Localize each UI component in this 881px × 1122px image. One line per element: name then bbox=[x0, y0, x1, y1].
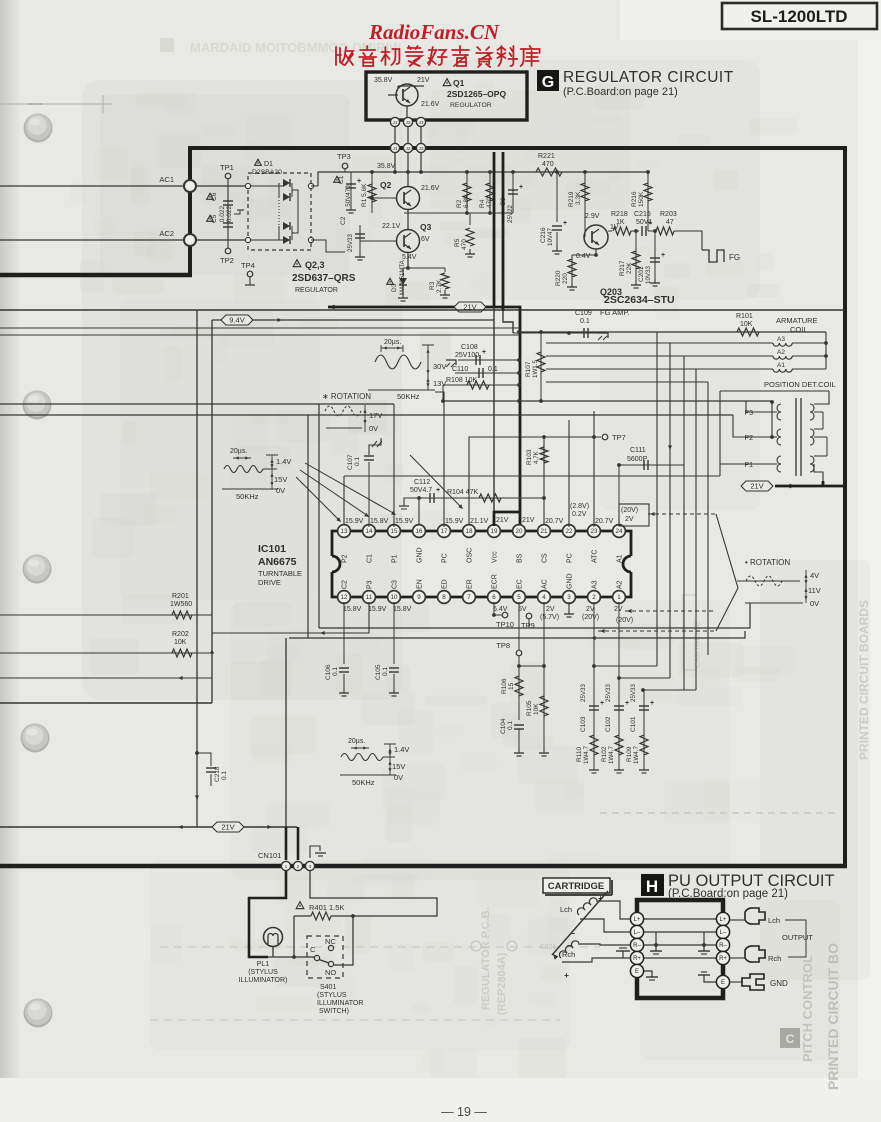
svg-text:12: 12 bbox=[341, 594, 348, 601]
svg-text:D2SBA20: D2SBA20 bbox=[252, 169, 282, 176]
svg-text:EC: EC bbox=[517, 579, 524, 589]
svg-text:6: 6 bbox=[492, 594, 496, 601]
svg-text:C103: C103 bbox=[580, 716, 587, 732]
svg-text:C: C bbox=[786, 1032, 795, 1046]
svg-text:R401 1.5K: R401 1.5K bbox=[309, 903, 344, 912]
svg-text:— 19 —: — 19 — bbox=[441, 1105, 487, 1119]
svg-text:25V100: 25V100 bbox=[455, 352, 479, 359]
svg-text:15: 15 bbox=[508, 682, 515, 690]
svg-text:0.1: 0.1 bbox=[354, 457, 361, 466]
svg-text:ARMATURE: ARMATURE bbox=[776, 316, 818, 325]
svg-text:2V: 2V bbox=[546, 606, 555, 613]
svg-text:PRINTED CIRCUIT BOARDS: PRINTED CIRCUIT BOARDS bbox=[857, 600, 871, 760]
svg-text:TP3: TP3 bbox=[337, 152, 351, 161]
svg-text:ER: ER bbox=[467, 579, 474, 589]
svg-text:15.9V: 15.9V bbox=[445, 518, 464, 525]
svg-text:C107: C107 bbox=[347, 454, 354, 470]
svg-text:OSC: OSC bbox=[467, 548, 474, 563]
svg-text:30V: 30V bbox=[433, 362, 446, 371]
svg-text:C104: C104 bbox=[500, 718, 507, 734]
svg-text:C111: C111 bbox=[630, 447, 646, 454]
svg-text:2SD1265–OPQ: 2SD1265–OPQ bbox=[447, 89, 506, 99]
svg-text:NC: NC bbox=[325, 937, 336, 946]
svg-text:C2: C2 bbox=[340, 216, 347, 225]
svg-text:(STYLUS: (STYLUS bbox=[317, 992, 347, 999]
svg-text:R1 5.6K: R1 5.6K bbox=[361, 183, 368, 207]
svg-text:J3: J3 bbox=[418, 120, 423, 126]
svg-text:GND: GND bbox=[770, 979, 788, 988]
svg-text:C5: C5 bbox=[211, 214, 218, 223]
svg-text:BS: BS bbox=[517, 553, 524, 563]
svg-text:E: E bbox=[635, 969, 639, 975]
svg-text:POSITION DET.COIL: POSITION DET.COIL bbox=[764, 380, 836, 389]
svg-text:20: 20 bbox=[516, 528, 523, 535]
svg-text:R106: R106 bbox=[501, 678, 508, 694]
svg-text:ILLUMINATOR: ILLUMINATOR bbox=[317, 1000, 363, 1007]
svg-text:EN: EN bbox=[417, 579, 424, 589]
svg-text:C108: C108 bbox=[461, 344, 478, 351]
svg-text:2SC2634–STU: 2SC2634–STU bbox=[604, 294, 675, 306]
svg-text:(REP2804A): (REP2804A) bbox=[496, 952, 508, 1015]
svg-text:R217: R217 bbox=[619, 260, 626, 276]
svg-text:14: 14 bbox=[366, 528, 373, 535]
svg-text:3.3K: 3.3K bbox=[575, 191, 582, 205]
svg-text:C106: C106 bbox=[325, 664, 332, 680]
svg-text:0V: 0V bbox=[394, 773, 403, 782]
svg-text:21.6V: 21.6V bbox=[421, 185, 440, 192]
svg-text:R218: R218 bbox=[611, 211, 628, 218]
svg-text:E301: E301 bbox=[540, 944, 556, 951]
svg-text:15.9V: 15.9V bbox=[368, 606, 387, 613]
svg-text:22K: 22K bbox=[626, 262, 633, 274]
svg-text:GND: GND bbox=[417, 547, 424, 563]
svg-text:D3: D3 bbox=[391, 283, 398, 292]
svg-text:25V33: 25V33 bbox=[605, 684, 612, 702]
svg-text:0.022: 0.022 bbox=[219, 205, 226, 222]
svg-text:COIL: COIL bbox=[790, 325, 808, 334]
svg-text:5.4V: 5.4V bbox=[402, 254, 417, 261]
svg-text:TP2: TP2 bbox=[220, 256, 234, 265]
svg-text:18: 18 bbox=[466, 528, 473, 535]
svg-text:21V: 21V bbox=[417, 77, 430, 84]
svg-text:35.8V: 35.8V bbox=[374, 77, 393, 84]
svg-text:15V: 15V bbox=[392, 762, 405, 771]
svg-text:2SD637–QRS: 2SD637–QRS bbox=[292, 273, 356, 284]
svg-text:Q3: Q3 bbox=[420, 222, 432, 232]
svg-text:TP4: TP4 bbox=[241, 261, 255, 270]
svg-text:CS: CS bbox=[542, 553, 549, 563]
svg-text:PC: PC bbox=[567, 553, 574, 563]
svg-text:+: + bbox=[564, 970, 569, 980]
svg-text:20.7V: 20.7V bbox=[595, 518, 614, 525]
svg-text:2: 2 bbox=[592, 594, 596, 601]
svg-text:0V: 0V bbox=[369, 424, 378, 433]
svg-text:1.4V: 1.4V bbox=[276, 457, 291, 466]
svg-text:C102: C102 bbox=[605, 716, 612, 732]
svg-text:R–: R– bbox=[719, 943, 727, 949]
svg-text:L–: L– bbox=[720, 930, 727, 936]
svg-text:24: 24 bbox=[616, 528, 623, 535]
svg-text:8: 8 bbox=[442, 594, 446, 601]
svg-text:D1: D1 bbox=[264, 161, 273, 168]
svg-text:TURNTABLE: TURNTABLE bbox=[258, 569, 302, 578]
svg-text:2V: 2V bbox=[625, 516, 634, 523]
svg-text:R107: R107 bbox=[525, 361, 532, 377]
svg-text:PITCH CONTROL: PITCH CONTROL bbox=[800, 955, 815, 1062]
svg-text:AC1: AC1 bbox=[159, 175, 174, 184]
svg-text:11: 11 bbox=[366, 594, 373, 601]
svg-text:50V470: 50V470 bbox=[345, 185, 352, 207]
svg-text:A3: A3 bbox=[592, 580, 599, 589]
svg-text:13: 13 bbox=[341, 528, 348, 535]
svg-text:(20V): (20V) bbox=[621, 507, 638, 514]
svg-text:ED: ED bbox=[442, 579, 449, 589]
svg-text:5: 5 bbox=[517, 594, 521, 601]
svg-text:25V33: 25V33 bbox=[347, 234, 354, 252]
svg-text:R202: R202 bbox=[172, 631, 189, 638]
svg-text:ILLUMINATOR): ILLUMINATOR) bbox=[239, 977, 288, 984]
svg-text:R–: R– bbox=[633, 943, 641, 949]
svg-text:J2: J2 bbox=[405, 146, 410, 152]
svg-text:TP9: TP9 bbox=[521, 621, 535, 630]
svg-text:DRIVE: DRIVE bbox=[258, 578, 281, 587]
svg-text:+: + bbox=[436, 487, 440, 494]
svg-text:50KHz: 50KHz bbox=[236, 492, 259, 501]
svg-text:(2.8V): (2.8V) bbox=[570, 503, 589, 510]
svg-text:21: 21 bbox=[541, 528, 548, 535]
svg-text:21.1V: 21.1V bbox=[470, 518, 489, 525]
svg-text:P1: P1 bbox=[392, 554, 399, 563]
svg-text:20µs.: 20µs. bbox=[230, 448, 247, 455]
svg-text:TP7: TP7 bbox=[612, 433, 626, 442]
svg-text:21V: 21V bbox=[522, 517, 535, 524]
svg-text:1: 1 bbox=[617, 594, 621, 601]
svg-text:50V1: 50V1 bbox=[636, 219, 652, 226]
svg-text:(20V): (20V) bbox=[582, 614, 599, 621]
svg-text:R5: R5 bbox=[454, 238, 461, 247]
svg-text:R4: R4 bbox=[479, 199, 486, 208]
svg-text:R3: R3 bbox=[429, 281, 436, 290]
svg-text:C1: C1 bbox=[367, 554, 374, 563]
svg-text:1W4.7: 1W4.7 bbox=[633, 746, 640, 764]
svg-text:–: – bbox=[570, 928, 575, 938]
svg-text:Lch: Lch bbox=[560, 905, 572, 914]
svg-text:6V: 6V bbox=[421, 236, 430, 243]
svg-text:A2: A2 bbox=[777, 349, 785, 356]
svg-text:A3: A3 bbox=[777, 336, 785, 343]
svg-text:C2: C2 bbox=[342, 580, 349, 589]
svg-text:Vcc: Vcc bbox=[492, 551, 499, 563]
svg-text:0.2V: 0.2V bbox=[572, 511, 587, 518]
svg-text:AC: AC bbox=[542, 579, 549, 589]
svg-text:R221: R221 bbox=[538, 153, 555, 160]
svg-text:150K: 150K bbox=[638, 191, 645, 207]
svg-text:15.8V: 15.8V bbox=[370, 518, 389, 525]
svg-text:0.1: 0.1 bbox=[332, 667, 339, 676]
svg-text:0.4V: 0.4V bbox=[576, 253, 591, 260]
svg-text:P2: P2 bbox=[744, 435, 753, 442]
svg-text:15: 15 bbox=[391, 528, 398, 535]
svg-text:0V: 0V bbox=[276, 486, 285, 495]
svg-text:Rch: Rch bbox=[768, 954, 781, 963]
svg-text:REGULATOR: REGULATOR bbox=[295, 287, 338, 294]
svg-text:0.1: 0.1 bbox=[507, 721, 514, 730]
svg-text:R101: R101 bbox=[736, 313, 753, 320]
svg-text:J2: J2 bbox=[405, 120, 410, 126]
svg-text:47: 47 bbox=[666, 219, 674, 226]
svg-text:FG: FG bbox=[729, 253, 740, 262]
svg-text:1W1.5: 1W1.5 bbox=[532, 360, 539, 378]
svg-text:SWITCH): SWITCH) bbox=[319, 1008, 349, 1015]
svg-text:P3: P3 bbox=[367, 580, 374, 589]
svg-text:+: + bbox=[661, 252, 665, 259]
svg-text:13V: 13V bbox=[433, 379, 446, 388]
svg-text:1W560: 1W560 bbox=[170, 601, 192, 608]
svg-text:C215: C215 bbox=[634, 211, 651, 218]
svg-text:R102: R102 bbox=[601, 746, 608, 762]
svg-text:50KHz: 50KHz bbox=[352, 778, 375, 787]
svg-text:2.9V: 2.9V bbox=[585, 213, 600, 220]
svg-text:Lch: Lch bbox=[768, 916, 780, 925]
svg-text:4.7K: 4.7K bbox=[533, 450, 540, 464]
svg-text:REGULATOR CIRCUIT: REGULATOR CIRCUIT bbox=[563, 69, 734, 86]
svg-text:C101: C101 bbox=[630, 716, 637, 732]
svg-text:6.8K: 6.8K bbox=[463, 194, 470, 208]
svg-text:0.1: 0.1 bbox=[488, 366, 498, 373]
svg-text:470: 470 bbox=[542, 161, 554, 168]
svg-text:C109: C109 bbox=[575, 310, 592, 317]
svg-text:MA4051MTA: MA4051MTA bbox=[400, 260, 406, 295]
svg-text:R105: R105 bbox=[526, 700, 533, 716]
svg-text:5600P: 5600P bbox=[627, 456, 648, 463]
svg-text:22: 22 bbox=[566, 528, 573, 535]
svg-text:10K: 10K bbox=[740, 321, 753, 328]
svg-text:PL1: PL1 bbox=[257, 961, 270, 968]
svg-text:R216: R216 bbox=[631, 191, 638, 207]
svg-text:3: 3 bbox=[567, 594, 571, 601]
svg-text:+: + bbox=[482, 349, 486, 356]
svg-text:10K: 10K bbox=[533, 703, 540, 715]
svg-text:0.022: 0.022 bbox=[226, 205, 233, 222]
svg-text:A1: A1 bbox=[617, 554, 624, 563]
svg-text:10: 10 bbox=[391, 594, 398, 601]
svg-text:PC: PC bbox=[442, 553, 449, 563]
svg-text:470: 470 bbox=[461, 239, 468, 250]
svg-text:50V4.7: 50V4.7 bbox=[410, 487, 432, 494]
svg-text:R103: R103 bbox=[526, 449, 533, 465]
svg-text:+: + bbox=[625, 700, 629, 707]
svg-text:C3: C3 bbox=[392, 580, 399, 589]
svg-text:R+: R+ bbox=[719, 956, 727, 962]
svg-text:0.1: 0.1 bbox=[382, 667, 389, 676]
svg-text:A1: A1 bbox=[777, 362, 785, 369]
svg-text:3: 3 bbox=[309, 864, 312, 870]
svg-text:(P.C.Board:on page 21): (P.C.Board:on page 21) bbox=[563, 86, 678, 98]
svg-text:10V47: 10V47 bbox=[547, 228, 554, 246]
svg-text:25V33: 25V33 bbox=[580, 684, 587, 702]
svg-text:Q1: Q1 bbox=[453, 78, 465, 88]
svg-text:AN6675: AN6675 bbox=[258, 556, 297, 568]
svg-text:R110: R110 bbox=[576, 747, 583, 762]
svg-text:G: G bbox=[542, 74, 554, 91]
svg-text:R220: R220 bbox=[555, 270, 562, 286]
svg-text:22.1V: 22.1V bbox=[382, 223, 401, 230]
svg-text:17: 17 bbox=[441, 528, 448, 535]
svg-text:TP8: TP8 bbox=[496, 641, 510, 650]
svg-text:C218: C218 bbox=[214, 766, 221, 782]
svg-text:15V: 15V bbox=[274, 475, 287, 484]
svg-text:1K: 1K bbox=[616, 219, 625, 226]
svg-text:4: 4 bbox=[542, 594, 546, 601]
svg-text:50KHz: 50KHz bbox=[397, 392, 420, 401]
svg-text:R2: R2 bbox=[456, 199, 463, 208]
svg-text:SL-1200LTD: SL-1200LTD bbox=[751, 7, 848, 26]
svg-text:(STYLUS: (STYLUS bbox=[248, 969, 278, 976]
svg-text:IC101: IC101 bbox=[258, 543, 286, 555]
svg-text:C105: C105 bbox=[375, 664, 382, 680]
svg-text:J3: J3 bbox=[418, 146, 423, 152]
svg-text:21V: 21V bbox=[496, 517, 509, 524]
svg-text:20µs.: 20µs. bbox=[348, 738, 365, 745]
svg-text:J1: J1 bbox=[392, 146, 397, 152]
svg-text:11V: 11V bbox=[808, 586, 821, 595]
svg-text:0.1: 0.1 bbox=[221, 771, 228, 780]
svg-text:1.4V: 1.4V bbox=[394, 745, 409, 754]
svg-text:9: 9 bbox=[417, 594, 421, 601]
svg-text:S401: S401 bbox=[320, 984, 336, 991]
svg-text:0.1: 0.1 bbox=[580, 318, 590, 325]
svg-text:10V33: 10V33 bbox=[645, 266, 652, 284]
svg-text:P2: P2 bbox=[342, 554, 349, 563]
svg-text:PRINTED CIRCUIT BO: PRINTED CIRCUIT BO bbox=[825, 943, 841, 1090]
svg-text:GND: GND bbox=[567, 573, 574, 589]
svg-text:1W4.7: 1W4.7 bbox=[608, 746, 615, 764]
svg-text:220: 220 bbox=[562, 273, 569, 284]
svg-text:R201: R201 bbox=[172, 593, 189, 600]
svg-text:R203: R203 bbox=[660, 211, 677, 218]
svg-text:L+: L+ bbox=[720, 917, 727, 923]
svg-text:REGULATOR P.C.B.: REGULATOR P.C.B. bbox=[480, 907, 492, 1010]
svg-text:CN101: CN101 bbox=[258, 851, 281, 860]
svg-text:7: 7 bbox=[467, 594, 471, 601]
svg-text:CARTRIDGE: CARTRIDGE bbox=[548, 881, 604, 892]
svg-text:E: E bbox=[721, 980, 725, 986]
svg-text:Q2: Q2 bbox=[380, 180, 392, 190]
svg-text:+: + bbox=[563, 220, 567, 227]
svg-text:J1: J1 bbox=[392, 120, 397, 126]
svg-text:35.8V: 35.8V bbox=[377, 163, 396, 170]
svg-text:AC2: AC2 bbox=[159, 229, 174, 238]
svg-text:C201: C201 bbox=[638, 266, 645, 282]
svg-text:17V: 17V bbox=[369, 411, 382, 420]
svg-text:19: 19 bbox=[491, 528, 498, 535]
svg-text:21V: 21V bbox=[750, 482, 763, 491]
svg-text:+: + bbox=[650, 700, 654, 707]
svg-text:15.9V: 15.9V bbox=[395, 518, 414, 525]
svg-text:R108 10K: R108 10K bbox=[446, 377, 477, 384]
svg-text:C216: C216 bbox=[540, 227, 547, 243]
svg-text:C1: C1 bbox=[338, 175, 345, 184]
svg-text:RadioFans.CN: RadioFans.CN bbox=[368, 20, 500, 44]
svg-text:L+: L+ bbox=[634, 917, 641, 923]
svg-text:1W4.7: 1W4.7 bbox=[583, 746, 590, 764]
svg-text:(5.7V): (5.7V) bbox=[540, 614, 559, 621]
svg-text:R104 47K: R104 47K bbox=[447, 489, 478, 496]
svg-text:20.7V: 20.7V bbox=[545, 518, 564, 525]
svg-text:15.8V: 15.8V bbox=[343, 606, 362, 613]
svg-text:2.7K: 2.7K bbox=[436, 279, 443, 293]
svg-text:+: + bbox=[519, 184, 523, 191]
svg-text:C: C bbox=[310, 945, 316, 954]
svg-text:25V33: 25V33 bbox=[630, 684, 637, 702]
svg-text:20µs.: 20µs. bbox=[384, 339, 401, 346]
svg-text:ECR: ECR bbox=[492, 574, 499, 589]
svg-text:R219: R219 bbox=[568, 191, 575, 207]
svg-text:10K: 10K bbox=[174, 639, 187, 646]
svg-text:ATC: ATC bbox=[592, 550, 599, 563]
svg-text:+: + bbox=[600, 700, 604, 707]
svg-text:R109: R109 bbox=[626, 746, 633, 762]
svg-text:REGULATOR: REGULATOR bbox=[450, 102, 492, 109]
svg-text:NO: NO bbox=[325, 968, 336, 977]
svg-text:C112: C112 bbox=[414, 479, 430, 486]
svg-text:21.6V: 21.6V bbox=[421, 101, 440, 108]
svg-text:OUTPUT: OUTPUT bbox=[782, 933, 813, 942]
svg-text:∗ ROTATION: ∗ ROTATION bbox=[322, 392, 371, 401]
svg-text:1: 1 bbox=[285, 864, 288, 870]
svg-text:C110: C110 bbox=[452, 366, 468, 373]
svg-text:H: H bbox=[646, 877, 658, 896]
svg-text:A2: A2 bbox=[617, 580, 624, 589]
svg-text:0V: 0V bbox=[810, 599, 819, 608]
svg-text:Q2,3: Q2,3 bbox=[305, 260, 325, 270]
svg-text:2: 2 bbox=[297, 864, 300, 870]
svg-text:TP1: TP1 bbox=[220, 163, 234, 172]
svg-text:2V: 2V bbox=[614, 606, 623, 613]
svg-text:470: 470 bbox=[486, 197, 493, 208]
svg-text:L–: L– bbox=[634, 930, 641, 936]
svg-text:• ROTATION: • ROTATION bbox=[745, 558, 790, 567]
svg-text:R+: R+ bbox=[633, 956, 641, 962]
svg-text:23: 23 bbox=[591, 528, 598, 535]
svg-text:C6: C6 bbox=[211, 192, 218, 201]
svg-text:16: 16 bbox=[416, 528, 423, 535]
svg-text:9.4V: 9.4V bbox=[229, 316, 244, 325]
svg-text:21V: 21V bbox=[221, 823, 234, 832]
svg-text:15.9V: 15.9V bbox=[345, 518, 364, 525]
svg-text:15.8V: 15.8V bbox=[393, 606, 412, 613]
svg-text:4V: 4V bbox=[810, 571, 819, 580]
svg-text:25V22: 25V22 bbox=[507, 205, 514, 223]
svg-text:P1: P1 bbox=[744, 462, 753, 469]
